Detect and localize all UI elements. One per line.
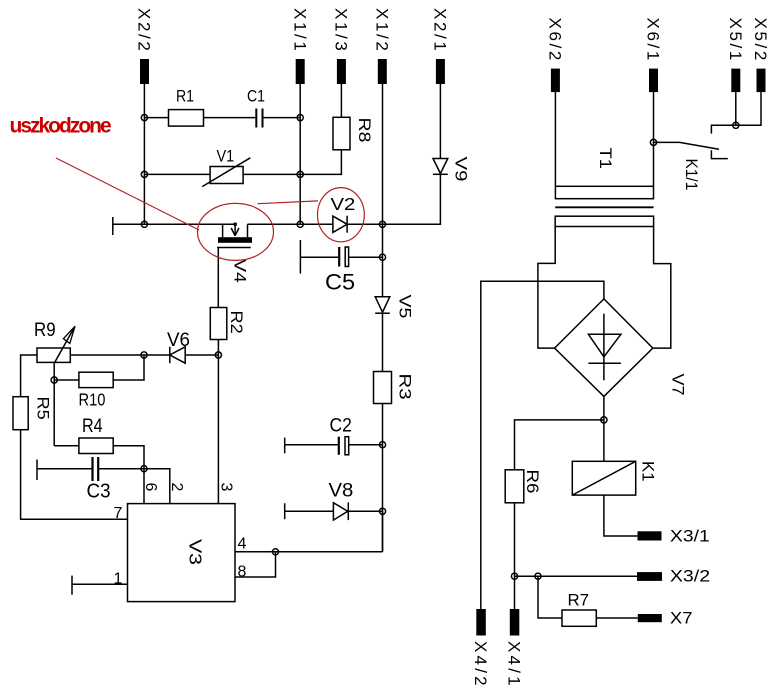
wire X1/2 down [382, 84, 384, 224]
node X2/2-R1 row [141, 115, 147, 121]
relay K1 [572, 420, 657, 495]
diode V2 [331, 195, 356, 233]
resistor R7 [562, 590, 596, 626]
svg-text:R1: R1 [176, 87, 194, 105]
wire X2/2 down [143, 84, 145, 224]
terminal X1/1 [290, 8, 309, 84]
node R9 wiper-R10-R4 [51, 377, 57, 383]
capacitor C5 [300, 240, 382, 294]
wire V5 to R3 [382, 313, 384, 371]
svg-text:4: 4 [238, 536, 247, 553]
wire pin4 corner up [382, 511, 384, 552]
diode V8 [285, 480, 383, 520]
svg-text:8: 8 [238, 564, 247, 581]
resistor R6 [505, 470, 542, 503]
node R2-V6-pin3 [215, 352, 221, 358]
wire R2 down [217, 340, 219, 356]
IC V3 [114, 483, 247, 602]
svg-text:K1/1: K1/1 [682, 159, 701, 191]
capacitor C2 [285, 414, 383, 455]
resistor R3 [374, 372, 415, 404]
node end bar main row [112, 217, 114, 235]
svg-text:C1: C1 [247, 87, 265, 105]
svg-text:V6: V6 [167, 330, 190, 351]
diode V5 [375, 295, 415, 319]
node pin4-pin8 [272, 549, 278, 555]
svg-text:6: 6 [142, 483, 159, 492]
wire R10 right up [113, 355, 144, 380]
annotation ellipse V4 [198, 203, 274, 260]
wire node to R7 [538, 576, 562, 618]
svg-text:X1/2: X1/2 [373, 8, 392, 53]
node X3/2-R7 [535, 573, 541, 579]
wire pin4 [235, 551, 383, 553]
svg-text:C3: C3 [87, 480, 111, 503]
svg-text:R10: R10 [79, 390, 106, 409]
svg-text:7: 7 [114, 505, 123, 522]
terminal X3/2 [637, 566, 710, 585]
wire R1 to C1 [204, 117, 256, 119]
terminal X3/1 [638, 527, 710, 546]
node X1/1-main row [297, 221, 303, 227]
annotation link line [258, 201, 319, 204]
node V8-pin4 riser [379, 508, 385, 514]
wire X6/2 down [554, 92, 556, 186]
svg-text:X6/2: X6/2 [546, 18, 565, 63]
capacitor C3 [37, 457, 144, 503]
wire node to R6 [515, 420, 604, 470]
node X1/1-C1 row [297, 115, 303, 121]
transformer T1 [555, 148, 653, 227]
wire secondary left to bridge [538, 227, 555, 349]
wire bridge top to X4/2 [481, 281, 604, 609]
wire R4 left [54, 445, 79, 447]
wire R8 bottom to node [300, 150, 341, 175]
node X2/2-V1 row [141, 171, 147, 177]
wire X1/3 to R8 [340, 84, 342, 117]
terminal X2/2 [135, 8, 154, 84]
terminal X6/2 [546, 18, 565, 93]
svg-text:X4/1: X4/1 [505, 641, 524, 689]
wire main row right of V4 [248, 223, 333, 225]
wire R4 right down [113, 446, 144, 469]
svg-text:X4/2: X4/2 [471, 641, 490, 689]
svg-text:R8: R8 [355, 118, 374, 143]
terminal X6/1 [644, 18, 663, 93]
wire pin6 [143, 469, 145, 504]
thyristor V4 [217, 223, 252, 283]
resistor R4 [79, 415, 113, 454]
svg-text:R5: R5 [34, 397, 53, 420]
terminal X5/2 [751, 18, 770, 93]
annotation ellipse V2 [318, 188, 365, 242]
wire X3/2 row [515, 575, 638, 577]
svg-text:R4: R4 [82, 415, 103, 437]
annotation leader line [56, 158, 199, 230]
node C2-R3 [379, 442, 385, 448]
node X6/1-switch [650, 139, 656, 145]
wire X2/1 to V9 [439, 84, 441, 159]
svg-text:K1: K1 [638, 461, 657, 482]
wire secondary right to bridge [653, 227, 671, 349]
wire R6 down [514, 503, 516, 609]
svg-text:V2: V2 [331, 195, 356, 215]
resistor R1 [169, 87, 204, 126]
svg-text:R6: R6 [523, 470, 542, 494]
svg-text:X5/2: X5/2 [751, 18, 770, 63]
wire pin1 [72, 576, 128, 595]
node R9-V6-R10 [141, 352, 147, 358]
bridge rectifier V7 [555, 299, 688, 397]
svg-text:V8: V8 [329, 480, 354, 501]
node X5/1-X5/2-switch [733, 122, 739, 128]
svg-text:X1/1: X1/1 [290, 8, 309, 53]
svg-text:X1/3: X1/3 [332, 8, 351, 53]
varistor V1 [202, 147, 250, 186]
wire R10 node down [53, 380, 55, 446]
resistor R5 [13, 397, 53, 430]
svg-text:V4: V4 [231, 259, 250, 283]
terminal X7 [638, 608, 693, 627]
switch K1/1 [654, 125, 736, 190]
svg-text:R9: R9 [34, 319, 56, 340]
wire R7 to X7 [596, 617, 638, 619]
wire X5/2 down to node [736, 92, 761, 125]
wire V1 right [243, 173, 300, 175]
resistor R8 [333, 117, 375, 150]
svg-text:V5: V5 [396, 295, 415, 319]
resistor R10 [79, 372, 114, 410]
svg-text:V7: V7 [669, 374, 688, 396]
svg-text:X5/1: X5/1 [726, 18, 745, 63]
svg-text:V1: V1 [217, 147, 235, 165]
wire pin3 column [217, 355, 219, 504]
node X2/2-main row [141, 221, 147, 227]
svg-text:X6/1: X6/1 [644, 18, 663, 63]
wire C1 right [264, 117, 301, 119]
svg-text:T1: T1 [596, 148, 615, 169]
terminal X1/2 [373, 8, 392, 84]
potentiometer R9 [34, 319, 75, 380]
capacitor C1 [247, 87, 265, 127]
svg-text:X2/2: X2/2 [135, 8, 154, 53]
terminal X4/2 [471, 609, 490, 689]
resistor R2 [210, 308, 246, 340]
svg-text:X2/1: X2/1 [431, 8, 450, 53]
wire R9 right [70, 354, 144, 356]
terminal X1/3 [332, 8, 351, 84]
wire R9 left [21, 355, 37, 397]
wire main row left [113, 223, 235, 225]
svg-text:X3/1: X3/1 [670, 527, 710, 546]
node C5-V5 [379, 254, 385, 260]
wire R5 down to pin7 [21, 430, 128, 520]
svg-text:2: 2 [168, 483, 185, 492]
wire R10 left [54, 379, 79, 381]
svg-text:V3: V3 [185, 539, 205, 565]
terminal X2/1 [431, 8, 450, 84]
wire X1/1 down [299, 84, 301, 224]
terminal X4/1 [505, 609, 524, 689]
svg-text:R3: R3 [396, 374, 415, 400]
wire V9 down to corner [383, 174, 441, 224]
wire row1 left [144, 117, 168, 119]
wire R3 down [382, 404, 384, 552]
wire X6/1 down [653, 92, 655, 186]
svg-text:C2: C2 [330, 414, 352, 436]
wire row2 [144, 173, 210, 175]
svg-text:C5: C5 [325, 269, 355, 294]
svg-text:R2: R2 [227, 311, 246, 334]
wire relay to X3/1 [604, 495, 638, 536]
wire V4 bottom to R2 [217, 248, 219, 308]
annotation uszkodzone [10, 115, 365, 261]
svg-text:X7: X7 [670, 608, 693, 627]
node R6-X3/2-X4/1 [511, 573, 517, 579]
diode V6 [144, 330, 218, 363]
svg-text:uszkodzone: uszkodzone [10, 115, 111, 138]
wire pin2 [144, 469, 170, 504]
diode V9 [433, 157, 471, 182]
node X1/1-V1-R8 [297, 171, 303, 177]
wire V2 right [347, 223, 382, 225]
terminal X5/1 [726, 18, 745, 93]
svg-text:R7: R7 [568, 590, 590, 609]
svg-text:V9: V9 [452, 157, 471, 182]
node X1/2-main row [379, 221, 385, 227]
svg-text:X3/2: X3/2 [670, 566, 710, 585]
node bridge-R6-relay [601, 417, 607, 423]
wire X1/2 column down from row [382, 224, 384, 296]
wire pin8 [235, 552, 276, 577]
node C3-R4-pin6 [141, 466, 147, 472]
svg-text:3: 3 [218, 483, 235, 492]
wire bridge bottom [603, 396, 605, 420]
wire X5/1 down [735, 92, 737, 125]
